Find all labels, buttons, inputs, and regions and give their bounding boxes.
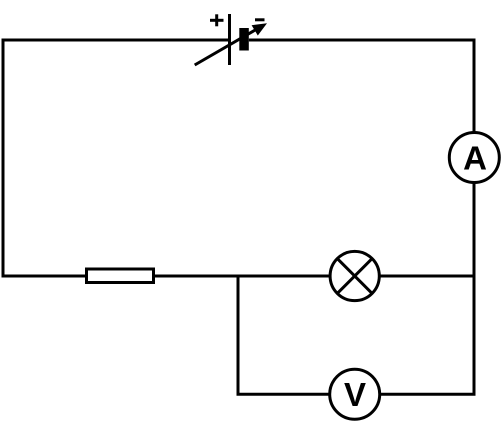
lamp (330, 251, 379, 300)
svg-text:A: A (463, 140, 487, 177)
ammeter A (449, 133, 499, 183)
voltmeter V (330, 369, 380, 419)
battery positive plate (long) (228, 14, 231, 65)
wire left loop: battery positive plate, top-left corner, left side, bottom wire to right side (3, 40, 474, 276)
plus label (210, 14, 224, 26)
variable arrow through battery (195, 23, 267, 65)
battery negative plate (short thick) (239, 28, 249, 51)
resistor R (87, 269, 154, 283)
svg-text:V: V (344, 376, 366, 413)
wire right loop: battery negative terminal, top-right corner, right side through ammeter, bottom-right corner, voltmeter wire, branch up to junction (238, 40, 474, 394)
minus label (255, 18, 265, 21)
